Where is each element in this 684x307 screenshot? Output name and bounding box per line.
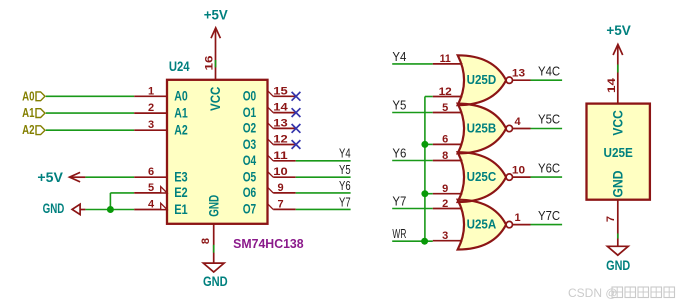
svg-text:O3: O3 — [243, 137, 257, 152]
gate U25C input pins — [433, 150, 463, 195]
svg-text:O5: O5 — [243, 170, 257, 185]
svg-text:11: 11 — [440, 53, 451, 65]
svg-text:VCC: VCC — [208, 86, 223, 111]
hierarchical label A2 — [22, 122, 45, 137]
U24 pin 2 (A1) — [134, 102, 188, 120]
svg-text:10: 10 — [273, 166, 287, 178]
wire Y5 into gates — [392, 112, 433, 114]
svg-text:2: 2 — [148, 102, 154, 114]
wire U24 Y7 output — [296, 208, 351, 210]
wire Y7C — [531, 224, 563, 226]
wire WR into gates — [392, 240, 433, 242]
wire Y6 into gates — [392, 160, 433, 162]
svg-text:VCC: VCC — [611, 110, 626, 136]
wire A2 to U24 pin 3 — [46, 129, 134, 131]
U24 pin 8 (GND) and GND power — [200, 195, 228, 289]
gate U25C output pin 10 — [512, 165, 531, 178]
gate U25D output bubble — [506, 77, 512, 83]
U24 pin 5 (E2) — [134, 182, 188, 200]
svg-text:Y4: Y4 — [339, 146, 351, 161]
svg-text:Y7: Y7 — [392, 194, 406, 209]
wire WR stub to pin 12 — [425, 96, 433, 98]
wire +5V to pin 16 — [215, 60, 217, 67]
svg-text:GND: GND — [206, 195, 221, 217]
svg-text:O2: O2 — [243, 121, 257, 136]
svg-text:Y6C: Y6C — [538, 160, 560, 175]
svg-text:1: 1 — [148, 85, 154, 97]
svg-text:E1: E1 — [174, 202, 188, 217]
svg-text:O6: O6 — [243, 185, 257, 200]
gate U25D body fill — [458, 55, 506, 105]
svg-text:GND: GND — [606, 258, 630, 273]
no-connect X at pin y=144.5 — [292, 140, 301, 149]
wire A0 to U24 pin 1 — [46, 95, 134, 97]
gate U25C output bubble — [506, 174, 512, 180]
wire junction to E2 (vertical) — [109, 193, 111, 210]
wire to E2 pin 5 — [110, 192, 134, 194]
svg-text:O7: O7 — [243, 202, 257, 217]
gate U25C (NOR) outline — [458, 152, 506, 202]
svg-text:4: 4 — [514, 116, 521, 128]
wire U24 Y5 output — [296, 176, 351, 178]
power symbol +5V (left, to E3) — [37, 170, 85, 185]
watermark CSDN — [568, 286, 675, 300]
svg-text:A1: A1 — [22, 105, 34, 120]
svg-text:12: 12 — [273, 134, 287, 146]
U24 pin 9 (O6) — [243, 182, 296, 200]
svg-text:A1: A1 — [174, 105, 188, 120]
svg-text:11: 11 — [273, 150, 287, 162]
no-connect X at pin y=128.4 — [292, 124, 301, 133]
svg-text:15: 15 — [273, 85, 287, 97]
wire U24 Y4 output — [296, 160, 351, 162]
wire Y6C — [531, 176, 563, 178]
wire WR stub to pin 9 — [425, 193, 433, 195]
svg-text:O1: O1 — [243, 105, 257, 120]
power symbol GND (left, to E1) — [43, 201, 86, 216]
svg-text:13: 13 — [273, 117, 287, 129]
svg-text:Y6: Y6 — [392, 146, 406, 161]
gate U25A input pins — [433, 198, 463, 242]
svg-text:U24: U24 — [169, 59, 190, 75]
svg-text:U25B: U25B — [467, 120, 497, 135]
no-connect X at pin y=112.6 — [292, 108, 301, 117]
svg-text:Y4C: Y4C — [538, 63, 560, 78]
svg-text:14: 14 — [606, 77, 618, 93]
wire Y4 into gates — [392, 63, 433, 65]
U25E pin 7 (GND) and GND power — [605, 170, 631, 273]
U24 pin 7 (O7) — [243, 198, 296, 216]
svg-text:U25E: U25E — [604, 145, 633, 160]
svg-text:WR: WR — [392, 226, 406, 241]
svg-text:SM74HC138: SM74HC138 — [233, 236, 304, 251]
svg-text:U25D: U25D — [467, 72, 497, 87]
svg-text:Y7: Y7 — [339, 194, 351, 209]
U24 pin 16 (VCC) and +5V power — [204, 8, 228, 111]
gate U25B output pin 4 — [513, 116, 531, 129]
U24 pin 1 (A0) — [134, 85, 188, 103]
svg-text:8: 8 — [442, 150, 448, 162]
svg-text:+5V: +5V — [204, 8, 228, 23]
svg-text:CSDN @: CSDN @ — [568, 286, 618, 300]
svg-text:+5V: +5V — [37, 170, 63, 185]
U24 pin 11 (O4) — [243, 150, 296, 168]
wire A1 to U24 pin 2 — [46, 112, 134, 114]
svg-text:16: 16 — [204, 56, 216, 71]
IC U24 SM74HC138 body — [167, 80, 268, 224]
svg-text:A2: A2 — [174, 123, 188, 138]
svg-text:Y4: Y4 — [392, 49, 406, 64]
gate U25D output pin 13 — [512, 68, 531, 81]
junction node at E1 wire — [107, 206, 114, 213]
svg-text:E2: E2 — [174, 185, 188, 200]
svg-text:GND: GND — [611, 170, 626, 197]
gate U25B body fill — [458, 104, 506, 154]
svg-text:14: 14 — [273, 102, 288, 114]
svg-text:3: 3 — [442, 230, 448, 242]
wire GND to E1 pin 4 — [85, 209, 134, 211]
wire Y4C — [531, 79, 563, 81]
U24 pin 3 (A2) — [134, 119, 188, 137]
svg-text:Y5: Y5 — [392, 98, 406, 113]
svg-text:9: 9 — [277, 182, 283, 194]
gate U25D (NOR) outline — [458, 55, 506, 105]
svg-text:+5V: +5V — [606, 23, 631, 38]
U24 pin 6 (E3) — [134, 166, 188, 184]
U24 pin 14 (O1) — [243, 102, 296, 120]
hierarchical label A1 — [22, 105, 45, 120]
gate U25A output bubble — [506, 221, 512, 227]
svg-text:7: 7 — [277, 198, 283, 210]
no-connect X at pin y=96.3 — [292, 92, 301, 101]
svg-text:Y6: Y6 — [339, 178, 351, 193]
U24 pin 4 (E1) — [134, 199, 188, 217]
junction WR/pin3 — [421, 238, 428, 245]
svg-text:13: 13 — [512, 68, 525, 80]
U24 pin 10 (O5) — [243, 166, 296, 184]
svg-text:O4: O4 — [243, 153, 257, 168]
gate U25A body fill — [458, 200, 506, 250]
wire WR stub to pin 6 — [425, 143, 433, 145]
wire Y7 into gates — [392, 208, 433, 210]
wire U24 Y6 output — [296, 192, 351, 194]
IC U25E power unit body — [587, 104, 650, 200]
svg-text:8: 8 — [200, 238, 212, 244]
gate U25D input pins — [433, 53, 463, 98]
wire pin8 to GND — [213, 245, 215, 253]
junction WR/pin6 — [421, 141, 428, 148]
svg-text:6: 6 — [148, 166, 154, 178]
svg-text:A0: A0 — [22, 88, 34, 103]
gate U25B output bubble — [506, 125, 512, 131]
U24 pin 13 (O2) — [243, 117, 296, 135]
gate U25B (NOR) outline — [458, 104, 506, 154]
gate U25C body fill — [458, 152, 506, 202]
svg-text:12: 12 — [439, 86, 452, 98]
svg-text:O0: O0 — [243, 89, 257, 104]
svg-text:7: 7 — [605, 216, 617, 222]
gate U25A output pin 1 — [513, 212, 531, 225]
svg-text:3: 3 — [148, 119, 154, 131]
svg-text:GND: GND — [203, 274, 228, 289]
svg-text:E3: E3 — [174, 170, 188, 185]
wire +5V to E3 pin 6 — [85, 176, 134, 178]
U24 pin 15 (O0) — [243, 85, 296, 103]
hierarchical label A0 — [22, 88, 45, 103]
junction WR/pin9 — [421, 190, 428, 197]
svg-text:9: 9 — [442, 183, 448, 195]
U25E pin 14 (VCC) and +5V power — [606, 23, 631, 136]
svg-text:4: 4 — [148, 199, 155, 211]
wire pin7 to GND — [617, 234, 619, 239]
svg-text:5: 5 — [442, 102, 448, 114]
wire Y5C — [531, 128, 563, 130]
wire +5V to pin 14 — [617, 65, 619, 73]
svg-text:5: 5 — [148, 182, 154, 194]
svg-text:1: 1 — [514, 212, 520, 224]
U24 pin 12 (O3) — [243, 134, 296, 152]
svg-text:A0: A0 — [174, 89, 188, 104]
svg-text:GND: GND — [43, 201, 65, 216]
svg-text:2: 2 — [442, 198, 448, 210]
gate U25A (NOR) outline — [458, 200, 506, 250]
svg-text:Y7C: Y7C — [538, 208, 560, 223]
svg-text:6: 6 — [442, 134, 448, 146]
svg-text:U25A: U25A — [467, 217, 497, 232]
wire WR vertical distribution — [424, 97, 426, 242]
gate U25B input pins — [433, 102, 463, 146]
svg-text:Y5: Y5 — [339, 162, 351, 177]
svg-text:Y5C: Y5C — [538, 112, 560, 127]
svg-text:U25C: U25C — [467, 169, 497, 184]
svg-text:A2: A2 — [22, 122, 34, 137]
svg-text:10: 10 — [512, 165, 525, 177]
